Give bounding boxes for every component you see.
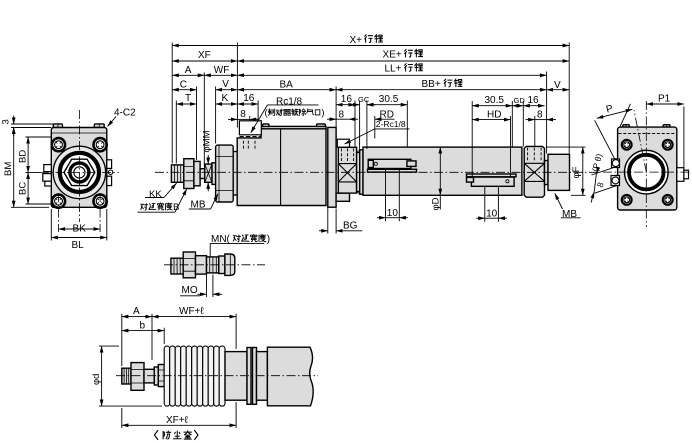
switch 1 screw <box>374 162 377 165</box>
ext lines top dims <box>122 314 236 366</box>
dimension BL <box>51 237 107 239</box>
dimension V right <box>547 89 570 91</box>
brake rear cover plate <box>328 127 336 207</box>
bellows small clamp <box>154 367 158 385</box>
gland hexagon <box>64 159 95 185</box>
svg-text:GC: GC <box>358 95 370 104</box>
dimension 10 second switch <box>485 187 499 222</box>
bolt bottom-left <box>622 195 632 205</box>
bolt top-left <box>52 138 65 151</box>
switch 2 screw <box>506 180 509 183</box>
tube adapter step <box>357 153 360 192</box>
dimension 30.5 head <box>472 105 512 107</box>
switch 1 set line <box>380 168 406 170</box>
svg-text:BM: BM <box>3 162 14 176</box>
piston rod thread KK <box>171 165 183 182</box>
dimension A <box>172 74 204 76</box>
mounting bump left on flange top <box>53 124 62 128</box>
svg-text:V: V <box>222 79 229 90</box>
bolt top-right <box>663 140 673 150</box>
bolt top-right <box>94 138 107 151</box>
extension line collar face <box>203 73 205 167</box>
bolt top-left <box>622 140 632 150</box>
dimension 3 ext lines <box>11 124 54 128</box>
svg-text:LL+: LL+ <box>385 64 402 75</box>
svg-text:): ) <box>267 234 270 245</box>
svg-text:WF+ℓ: WF+ℓ <box>179 306 204 317</box>
detail collar <box>196 256 207 274</box>
dimension b <box>122 330 164 332</box>
gland hex nut MB <box>216 145 234 202</box>
svg-text:X+: X+ <box>350 35 363 46</box>
detail socket end <box>219 256 225 274</box>
extension line rod tip <box>171 43 173 164</box>
detail thread <box>171 258 183 274</box>
bolt bottom-right <box>94 195 107 208</box>
tube end collar <box>360 150 363 194</box>
svg-text:XF: XF <box>198 50 211 61</box>
bolt bottom-left <box>52 195 65 208</box>
head block <box>524 146 544 197</box>
rod washer <box>194 161 200 185</box>
cylinder tube <box>363 147 522 195</box>
extension line 16R right <box>354 101 356 147</box>
svg-text:MO: MO <box>182 285 198 296</box>
bolt centerline extensions for BK <box>58 193 60 232</box>
horizontal centerline <box>603 171 692 173</box>
lip bolt bump left <box>263 124 269 127</box>
BL extension lines <box>51 209 107 241</box>
extension line HD right <box>510 116 512 177</box>
svg-text:XF+ℓ: XF+ℓ <box>166 415 189 426</box>
extension line tube end <box>522 101 524 147</box>
svg-text:A: A <box>185 65 192 76</box>
dimension 16 right <box>336 104 355 106</box>
switch 1 right nub <box>407 161 416 167</box>
centerline <box>116 375 318 377</box>
dimension BK <box>59 228 101 230</box>
rod circle <box>74 167 85 178</box>
flange plate <box>51 128 107 208</box>
dimension XF <box>172 60 237 62</box>
switch 2 left cap <box>467 177 474 182</box>
tube ring outer <box>625 150 669 194</box>
svg-text:b: b <box>140 320 146 331</box>
svg-text:16: 16 <box>243 93 255 104</box>
svg-text:3: 3 <box>1 119 12 124</box>
rear end boss <box>548 154 570 190</box>
extension line GC right <box>366 101 368 150</box>
rod neck <box>200 169 205 179</box>
detail wrench flats <box>207 257 219 273</box>
port boss thread dashes <box>240 136 262 138</box>
svg-text:BK: BK <box>73 224 87 235</box>
switch 1 left cap <box>368 160 373 167</box>
dimension V left <box>216 89 238 91</box>
port block cushion cross <box>338 164 356 182</box>
hidden bolt hole dashes on body shoulder <box>244 141 256 149</box>
svg-text:GD: GD <box>514 96 526 105</box>
dimension GC (outside arrows) <box>351 104 360 106</box>
svg-text:8: 8 <box>240 109 246 120</box>
gland collar <box>212 163 216 185</box>
svg-text:BB+: BB+ <box>422 79 441 90</box>
dimension A <box>122 316 152 318</box>
svg-text:Rc1/8: Rc1/8 <box>276 97 303 108</box>
svg-text:T: T <box>185 93 191 104</box>
left port fitting on flange edge <box>44 165 52 172</box>
dimension 16 head <box>523 105 544 107</box>
dimension P1 <box>646 103 684 105</box>
extension line gland face <box>215 87 217 144</box>
extension line boss rear face (heavy) <box>568 43 570 154</box>
svg-text:P1: P1 <box>658 94 671 105</box>
left port fitting lower boss <box>611 176 620 186</box>
lip bolt bump right <box>317 124 326 127</box>
brake unit body <box>237 129 326 206</box>
extension line 30.5R right <box>406 101 408 147</box>
bellows cuff <box>225 352 247 401</box>
dimension BA <box>237 89 336 91</box>
label (dust cover) <box>154 431 198 440</box>
hex nut <box>131 363 144 391</box>
rear plate <box>618 127 677 210</box>
dimension K <box>216 103 238 105</box>
extension line 30.5H left <box>471 101 473 177</box>
svg-text:XE+: XE+ <box>383 49 402 60</box>
vertical centerline <box>645 101 647 227</box>
dimension 3 arrows <box>13 116 15 125</box>
tube ring thick <box>629 155 664 190</box>
MN leader <box>210 244 264 258</box>
tube stub with break <box>267 347 313 406</box>
extension line washer face <box>196 87 198 161</box>
dimension BC <box>27 172 29 204</box>
rod bushing circle thick <box>70 163 89 182</box>
svg-text:2-Rc1/8: 2-Rc1/8 <box>376 119 406 129</box>
dimension BM <box>13 128 15 208</box>
svg-text:BC: BC <box>18 182 29 195</box>
extension line RD port center <box>374 116 376 139</box>
vertical centerline <box>78 110 80 222</box>
dimension X+stroke <box>172 45 569 47</box>
bolt bottom-right <box>663 195 673 205</box>
svg-text:4-C2: 4-C2 <box>114 108 136 119</box>
bellows pleats <box>164 346 225 406</box>
head cushion cross <box>524 163 544 181</box>
svg-text:φd: φd <box>91 374 102 385</box>
pilot boss circle <box>53 146 105 198</box>
extension line body rear face <box>335 87 337 139</box>
extension line thread start <box>175 101 177 164</box>
mounting bump right on flange top <box>94 124 104 128</box>
dimension WF+l <box>152 316 236 318</box>
label (brake release port) <box>265 108 325 119</box>
brake body divider <box>280 129 282 206</box>
extension line GD right <box>511 101 513 147</box>
sensor switch 1 body <box>368 159 411 168</box>
horizontal centerline <box>40 171 119 173</box>
cuff collar <box>257 352 268 401</box>
svg-text:30.5: 30.5 <box>379 94 399 105</box>
svg-text:HD: HD <box>487 109 501 120</box>
svg-text:φMM: φMM <box>202 130 213 152</box>
extension line body front face (heavy) <box>236 43 238 128</box>
extension line port center left <box>249 116 251 120</box>
dimension BB+stroke <box>336 89 546 91</box>
svg-text:V: V <box>554 80 561 91</box>
head hidden thread lines <box>528 148 542 162</box>
dimension 16 left <box>237 103 258 105</box>
svg-text:8: 8 <box>537 109 543 120</box>
sensor switch 2 body <box>471 177 514 186</box>
svg-text:A: A <box>133 306 140 317</box>
svg-text:WF: WF <box>214 65 230 76</box>
svg-text:BD: BD <box>18 150 29 163</box>
rod bushing box with cross <box>205 164 212 182</box>
leader to port boss with underline <box>268 104 319 106</box>
svg-text:30.5: 30.5 <box>485 95 505 106</box>
svg-text:C: C <box>180 79 187 90</box>
dimension WF <box>204 74 237 76</box>
dimension XE+stroke <box>237 60 569 62</box>
sensor switch 1 rail slot <box>368 169 417 172</box>
head port boss right (white) <box>337 139 349 147</box>
dimension HD <box>472 119 510 121</box>
svg-text:BL: BL <box>72 240 85 251</box>
bump right on plate top <box>663 125 670 127</box>
detail centerline <box>164 264 265 266</box>
dimension P (slanted) <box>597 109 633 118</box>
main centerline <box>155 171 600 173</box>
dimension C <box>172 89 196 91</box>
label 对边宽度B with leader <box>141 202 180 213</box>
rod-side port block <box>338 147 356 193</box>
left port fitting upper boss <box>612 159 620 168</box>
sensor switch 2 rail slot <box>467 174 517 177</box>
label MN(width across flats) <box>211 234 270 245</box>
hidden chamfer line <box>619 133 677 135</box>
cuff ring 2 <box>253 348 257 405</box>
port block hidden thread lines <box>341 148 353 162</box>
flange chamfer line <box>52 132 107 134</box>
svg-text:): ) <box>321 108 324 119</box>
bump left on plate top <box>623 125 630 127</box>
svg-text:16: 16 <box>528 95 540 106</box>
dimension phiD <box>439 147 441 195</box>
svg-text:BA: BA <box>280 79 294 90</box>
svg-text:BG: BG <box>343 220 358 231</box>
rod <box>144 369 154 383</box>
rod hex nut <box>184 159 194 189</box>
dimension T <box>176 103 196 105</box>
svg-text:φD: φD <box>431 197 442 210</box>
svg-text:φF: φF <box>571 166 582 178</box>
dimension XF+l <box>122 402 236 428</box>
cuff ring 1 <box>247 348 251 405</box>
dimension BG <box>328 207 336 234</box>
extension line head port center <box>534 116 536 147</box>
dimension phi d <box>99 346 162 406</box>
dimension BD <box>27 137 29 172</box>
angled center mark <box>634 110 646 172</box>
bearing ring thick <box>60 153 99 192</box>
neck between head and boss <box>545 161 549 185</box>
extension line head rear face (heavy) <box>546 72 548 154</box>
svg-text:16: 16 <box>341 94 353 105</box>
svg-text:B: B <box>173 202 179 213</box>
brake release port boss (white) <box>239 121 261 135</box>
detail hex nut <box>183 252 195 278</box>
extension line port edge left <box>257 101 259 121</box>
bottom tab right of cover <box>336 193 349 201</box>
dimension LL+stroke <box>237 74 546 76</box>
brake body top lip <box>261 126 326 128</box>
svg-text:K: K <box>222 93 229 104</box>
svg-text:KK: KK <box>149 189 162 200</box>
spacer plate <box>233 152 237 196</box>
dimension phiF <box>546 147 586 195</box>
dimension GD <box>512 105 523 107</box>
right port fitting on flange edge <box>107 160 112 169</box>
thread tip <box>122 368 131 384</box>
extension line GC left <box>359 101 361 152</box>
dimension 30.5 right <box>367 104 407 106</box>
dimension 10 first switch <box>386 169 400 222</box>
right port fitting <box>677 168 684 182</box>
